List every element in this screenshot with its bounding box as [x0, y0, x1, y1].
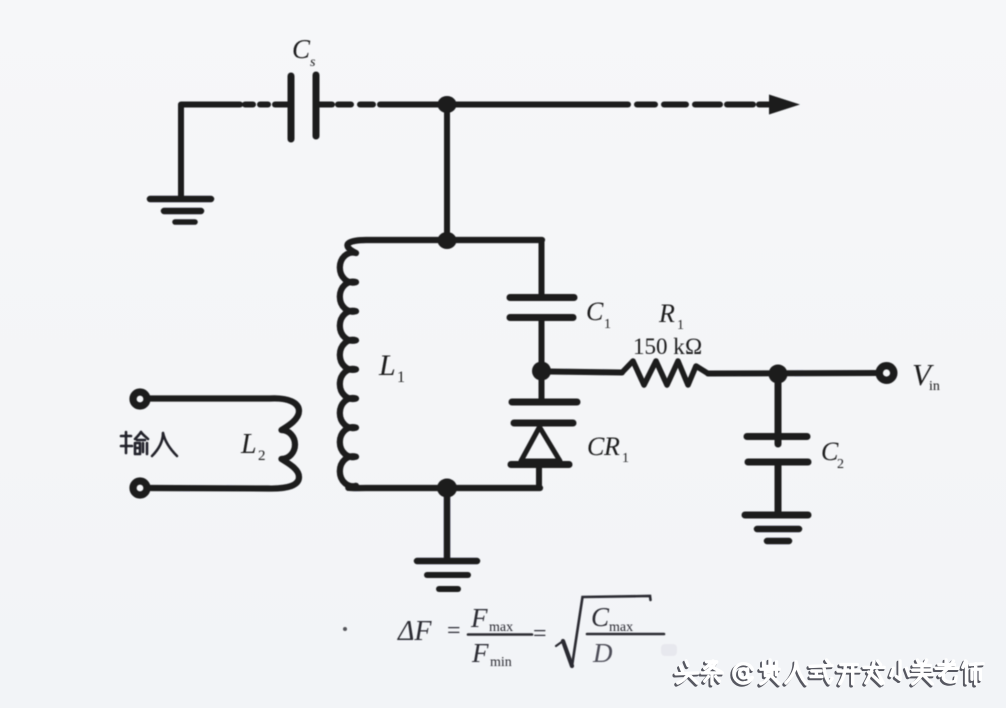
svg-text:1: 1 [677, 318, 684, 333]
svg-text:in: in [929, 379, 940, 394]
svg-text:max: max [489, 620, 513, 635]
svg-text:1: 1 [604, 317, 611, 332]
svg-text:1: 1 [622, 451, 629, 466]
svg-text:D: D [592, 638, 613, 668]
svg-text:F: F [471, 638, 489, 668]
svg-text:C: C [591, 602, 610, 632]
svg-text:2: 2 [837, 457, 844, 472]
svg-text:=: = [447, 618, 461, 644]
svg-text:ΔF: ΔF [397, 616, 432, 647]
svg-text:R: R [603, 432, 620, 461]
svg-text:C: C [586, 297, 604, 326]
svg-text:s: s [310, 55, 316, 70]
svg-text:R: R [658, 299, 675, 328]
svg-text:F: F [470, 603, 488, 633]
svg-text:2: 2 [258, 448, 266, 464]
svg-text:150 kΩ: 150 kΩ [633, 334, 702, 359]
svg-text:C: C [292, 34, 311, 64]
svg-text:1: 1 [397, 369, 405, 386]
svg-text:min: min [490, 655, 512, 670]
svg-text:L: L [240, 429, 257, 460]
svg-text:L: L [378, 349, 396, 382]
svg-text:=: = [533, 621, 547, 647]
svg-text:C: C [587, 432, 605, 461]
